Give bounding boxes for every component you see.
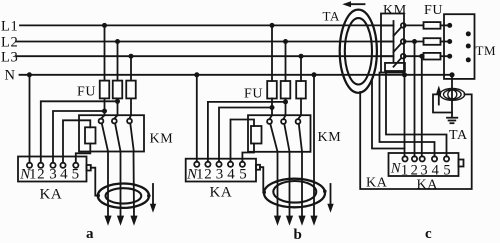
svg-text:4: 4	[432, 163, 440, 179]
svg-text:b: b	[294, 227, 302, 243]
current transformer TA c neutral ellipse inner	[444, 90, 462, 99]
svg-text:FU: FU	[77, 85, 96, 100]
current transformer ring b outer	[264, 179, 325, 208]
svg-text:5: 5	[239, 167, 247, 183]
node b t3 junction on phase1	[270, 105, 275, 110]
wire b t5 to coil bottom	[242, 144, 254, 162]
transformer TM box	[444, 14, 475, 79]
arrow a load2	[117, 216, 124, 226]
node ring a left junction	[96, 194, 100, 198]
coil KM a	[85, 127, 96, 143]
terminal b 3	[216, 162, 221, 167]
node ring a right junction	[147, 194, 151, 198]
label a terminals N1 2 3 4 5	[19, 166, 80, 182]
node L1 tap a	[102, 23, 107, 28]
svg-text:KA: KA	[366, 176, 388, 191]
svg-text:FU: FU	[424, 3, 443, 18]
arrow a side	[150, 184, 156, 213]
contact b pole3	[296, 115, 302, 151]
node TM neutral on N	[449, 72, 454, 77]
wire c pole1 to fuse	[406, 24, 424, 26]
wire b load phase3	[301, 152, 303, 217]
node N tap a	[27, 72, 32, 77]
fuse FU c1	[424, 22, 441, 29]
contact b pole2	[281, 115, 289, 151]
wire c pole2 to fuse	[406, 41, 424, 43]
svg-text:FU: FU	[244, 87, 263, 102]
current transformer TA c neutral ellipse outer	[440, 89, 465, 101]
wire c to t4	[380, 73, 435, 157]
wire b load phase2	[289, 152, 291, 217]
isolator KM c box	[381, 14, 404, 73]
fuse FU a2	[113, 81, 123, 99]
terminal c N1	[402, 156, 407, 161]
svg-text:TM: TM	[476, 43, 497, 58]
fuse FU a1	[100, 81, 110, 99]
svg-text:KM: KM	[150, 132, 174, 147]
wire c t3 drop	[421, 56, 423, 156]
relay KA a box	[18, 157, 87, 182]
wire a phase3 drop	[130, 56, 132, 80]
terminal tab KA c	[459, 160, 464, 167]
node ring b right junction	[323, 190, 327, 194]
svg-text:2: 2	[411, 163, 419, 179]
wire b t1 to N	[196, 75, 198, 162]
wire L2 line	[16, 41, 394, 43]
fuse FU c2	[424, 38, 441, 45]
contact a pole1	[99, 115, 108, 151]
wire c secondary loop	[360, 92, 472, 189]
current transformer ring c outer	[340, 10, 377, 93]
contactor KM a box	[79, 115, 144, 151]
wire a tab to CT ring	[91, 168, 98, 196]
wire c fuse3 to TM	[441, 55, 450, 57]
terminal b 4	[228, 162, 233, 167]
terminal b 2	[205, 162, 210, 167]
svg-text:KA: KA	[210, 185, 233, 201]
wire b phase2 fuse to KM	[285, 99, 287, 116]
ground symbol	[447, 118, 457, 124]
arrow b side	[327, 184, 333, 213]
fuse FU b2	[281, 81, 291, 99]
svg-text:3: 3	[420, 163, 428, 179]
wire c TA secondary left to ground	[433, 94, 452, 112]
svg-text:a: a	[86, 226, 94, 242]
node TM out1	[466, 31, 471, 36]
arrow c ring direction	[342, 1, 364, 7]
wire c to t5	[386, 71, 447, 156]
svg-text:L2: L2	[1, 35, 18, 51]
wire c t1 drop	[404, 75, 406, 157]
wire a phase1 fuse to KM	[104, 98, 106, 115]
terminal c 5	[444, 156, 449, 161]
terminal b 5	[240, 162, 245, 167]
node TM in1	[447, 23, 452, 28]
node b t2 junction on phase2	[283, 99, 288, 104]
fuse FU b3	[296, 81, 306, 99]
wire c ground conductor	[451, 75, 453, 118]
wire a phase3 fuse to KM	[130, 98, 132, 115]
terminal a 2	[38, 163, 43, 168]
svg-text:5: 5	[443, 163, 451, 179]
arrow b load2	[286, 216, 293, 226]
wire a load phase2	[120, 152, 122, 218]
svg-text:1: 1	[401, 163, 409, 179]
wire a phase2 fuse to KM	[117, 98, 119, 115]
contactor KM b box	[248, 115, 311, 152]
node N tap b ring	[312, 72, 317, 77]
label c terminals N1 2 3 4 5	[390, 161, 451, 179]
svg-text:4: 4	[227, 167, 235, 183]
svg-text:TA: TA	[323, 8, 341, 23]
terminal c 4	[432, 156, 437, 161]
wire c t2 drop	[414, 42, 416, 157]
node a t3 junction on phase1	[102, 109, 107, 114]
node N tap b KA	[194, 72, 199, 77]
linkage KM c	[393, 21, 395, 62]
arrow b neutral	[310, 216, 317, 226]
wire b tab to CT ring	[260, 167, 264, 192]
svg-text:L1: L1	[1, 19, 18, 35]
wire a t5 to coil bottom	[76, 144, 91, 163]
wire a t2 to phase2	[41, 101, 118, 162]
arrow a load3	[130, 216, 137, 226]
node L2 tap a	[115, 39, 120, 44]
svg-text:KA: KA	[417, 178, 439, 193]
current transformer ring a inner	[106, 188, 142, 203]
svg-text:1: 1	[196, 167, 204, 183]
fuse FU b1	[267, 81, 277, 99]
wire b phase1 drop	[271, 25, 273, 81]
svg-text:c: c	[425, 226, 432, 242]
svg-text:3: 3	[216, 167, 224, 183]
label b terminals N1 2 3 4 5	[186, 167, 247, 183]
wire b t2 to phase2	[208, 102, 286, 162]
wire b load phase1	[277, 152, 279, 217]
wire c ring to t1	[372, 80, 405, 149]
wire c fuse1 to TM	[441, 24, 450, 26]
wire a t4 to coil top	[63, 120, 90, 162]
terminal tab KA a	[87, 165, 91, 171]
svg-text:2: 2	[204, 167, 212, 183]
node TM out2	[466, 44, 471, 49]
terminal b N1	[194, 162, 199, 167]
terminal a 5	[73, 163, 78, 168]
node L3 tap a	[129, 54, 134, 59]
contact a pole2	[112, 115, 121, 151]
node TM out3	[466, 57, 471, 62]
wire a t1 to N	[29, 75, 31, 163]
contact c pole3	[381, 54, 406, 67]
arrow a load1	[104, 216, 111, 226]
wire a load phase3	[133, 152, 136, 218]
wire c fuse2 to TM	[441, 41, 450, 43]
terminal a N1	[27, 163, 32, 168]
contact c pole2	[381, 39, 406, 52]
node c t2 tap	[412, 39, 417, 44]
node c coil on N	[402, 72, 407, 77]
relay KA b box	[186, 159, 256, 182]
wire b load neutral	[313, 75, 315, 217]
fuse FU a3	[126, 81, 136, 99]
current transformer ring c inner	[345, 18, 372, 84]
wire L1 line	[20, 24, 394, 26]
wire c pole3 to fuse	[406, 55, 424, 57]
wire a load phase1	[107, 152, 109, 218]
contact a pole3	[127, 115, 134, 151]
node TM in3	[447, 54, 452, 59]
svg-text:5: 5	[72, 166, 80, 182]
svg-text:1: 1	[29, 166, 37, 182]
terminal tab KA b	[256, 165, 260, 170]
node ring b left junction	[262, 191, 266, 195]
wire b phase1 fuse to KM	[271, 99, 273, 116]
node L1 tap b	[270, 23, 275, 28]
node a t2 junction on phase2	[115, 99, 120, 104]
node L3 tap b	[299, 54, 304, 59]
svg-text:N: N	[5, 68, 16, 84]
wire N line	[20, 74, 453, 76]
svg-text:TA: TA	[449, 128, 468, 143]
svg-text:3: 3	[49, 166, 57, 182]
arrow b load3	[298, 216, 305, 226]
current transformer ring a outer	[98, 184, 149, 208]
svg-text:L3: L3	[1, 50, 18, 66]
wire b phase2 drop	[285, 42, 287, 82]
terminal c 2	[412, 156, 417, 161]
wire a t3 to phase1	[53, 111, 105, 163]
relay KA c box	[389, 153, 459, 176]
contact b pole1	[267, 115, 277, 151]
svg-text:4: 4	[60, 166, 68, 182]
wire b t3 to phase1	[219, 108, 272, 162]
svg-text:2: 2	[37, 166, 45, 182]
wire b t4 to coil top	[231, 120, 255, 162]
wire L3 line	[17, 55, 394, 57]
terminal a 3	[50, 163, 55, 168]
node c t3 tap	[419, 54, 424, 59]
contact c pole1	[381, 23, 406, 36]
svg-text:KA: KA	[40, 187, 63, 203]
svg-text:KM: KM	[318, 130, 342, 145]
wire b phase3 drop	[300, 56, 302, 81]
wire c coil stub right	[404, 71, 406, 75]
wire a phase1 drop	[104, 25, 106, 80]
terminal c 3	[420, 156, 425, 161]
coil KM b	[251, 126, 262, 144]
current transformer TA c neutral circle	[448, 90, 457, 99]
wire a phase2 drop	[117, 42, 119, 81]
current transformer ring b inner	[273, 181, 316, 203]
node TM in2	[447, 39, 452, 44]
wire b phase3 fuse to KM	[300, 99, 302, 116]
fuse FU c3	[424, 53, 441, 60]
arrow c TA direction up	[436, 86, 441, 105]
terminal a 4	[60, 163, 65, 168]
coil KM c	[385, 63, 405, 71]
node L2 tap b	[283, 39, 288, 44]
arrow b load1	[274, 216, 281, 226]
